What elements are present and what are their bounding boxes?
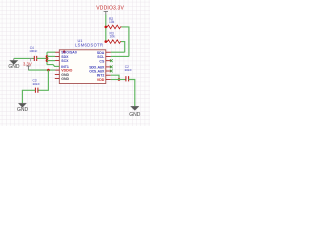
wire C2 to GND	[129, 80, 135, 107]
wire VDDIO3.3V vertical	[105, 15, 107, 42]
capacitor C4	[29, 46, 37, 61]
junction 3.3V/C3	[47, 69, 50, 72]
svg-text:VDDIO: VDDIO	[61, 68, 72, 72]
svg-text:10k: 10k	[109, 20, 115, 24]
pin INT1	[55, 65, 60, 67]
pin INT2	[106, 74, 111, 76]
wire rail to INT1	[47, 65, 59, 67]
wire VDD to C2	[111, 79, 126, 81]
svg-text:LSM6DSOTR: LSM6DSOTR	[75, 42, 103, 47]
svg-text:CS: CS	[99, 59, 105, 63]
svg-text:10k: 10k	[110, 35, 116, 39]
pin SCL	[106, 55, 111, 57]
pin SDO_AUX	[106, 66, 111, 68]
wire INT2 to VDD net	[111, 75, 119, 79]
svg-text:SCX: SCX	[61, 59, 69, 63]
svg-text:GND: GND	[8, 64, 20, 70]
wire C4 to rail	[37, 57, 47, 59]
svg-text:100nF: 100nF	[29, 49, 37, 53]
wire C3 drop	[38, 70, 48, 90]
pin OCS_AUX	[106, 70, 111, 72]
capacitor C2	[124, 65, 132, 81]
pin SCX	[55, 60, 60, 62]
pin GND left 1	[55, 73, 60, 75]
ground right	[129, 106, 141, 118]
node marker pin1 dot	[63, 51, 65, 53]
junction C4/rail	[46, 57, 49, 60]
pin SDX	[55, 55, 60, 57]
no-connect CS	[110, 59, 113, 62]
svg-text:100nF: 100nF	[32, 82, 40, 86]
power port 3.3V	[23, 58, 32, 70]
pin GND left 2	[55, 78, 60, 80]
wire R3 to SDA	[121, 42, 125, 53]
svg-text:100nF: 100nF	[124, 68, 132, 72]
wire SDA	[111, 51, 125, 53]
junction at R2 left	[105, 26, 108, 29]
wire rail to SDX	[47, 55, 55, 57]
junction rail SCX	[46, 59, 49, 62]
power port VDDIO3.3V	[96, 5, 124, 15]
junction at R3 left	[105, 40, 108, 43]
op-amp U1 (IC LSM6DSOTR body)	[59, 38, 106, 84]
wire C3 to GND	[22, 90, 35, 103]
pin VDDIO	[55, 69, 60, 71]
wire rail to SDO/SA0	[47, 51, 55, 53]
wire SCL	[111, 55, 129, 57]
pin VDD	[106, 79, 111, 81]
ground top-left	[8, 58, 20, 70]
resistor R3	[106, 31, 121, 43]
pin CS	[106, 60, 111, 62]
pin SDA	[106, 51, 111, 53]
svg-text:GND: GND	[61, 77, 69, 81]
pin SDO/SA0	[55, 51, 60, 53]
wire rail left bus	[46, 52, 48, 64]
svg-text:VDDIO3.3V: VDDIO3.3V	[96, 5, 124, 11]
junction rail SDX	[46, 55, 49, 58]
grid dots	[0, 0, 150, 126]
svg-text:VDD: VDD	[97, 78, 105, 82]
ground bottom-left	[17, 103, 29, 113]
junction INT2/VDD	[118, 78, 121, 81]
wire R2 to SCL	[122, 27, 129, 57]
svg-text:GND: GND	[17, 107, 29, 113]
wire GND to C4	[14, 57, 34, 59]
svg-text:GND: GND	[129, 112, 141, 118]
background	[0, 0, 150, 126]
no-connect SDO_AUX	[110, 66, 113, 69]
capacitor C3	[32, 79, 40, 93]
wire rail to SCX	[47, 60, 55, 62]
no-connect OCS_AUX	[110, 70, 113, 73]
resistor R2	[106, 17, 122, 29]
wire 3.3V to VDDIO	[28, 69, 55, 71]
